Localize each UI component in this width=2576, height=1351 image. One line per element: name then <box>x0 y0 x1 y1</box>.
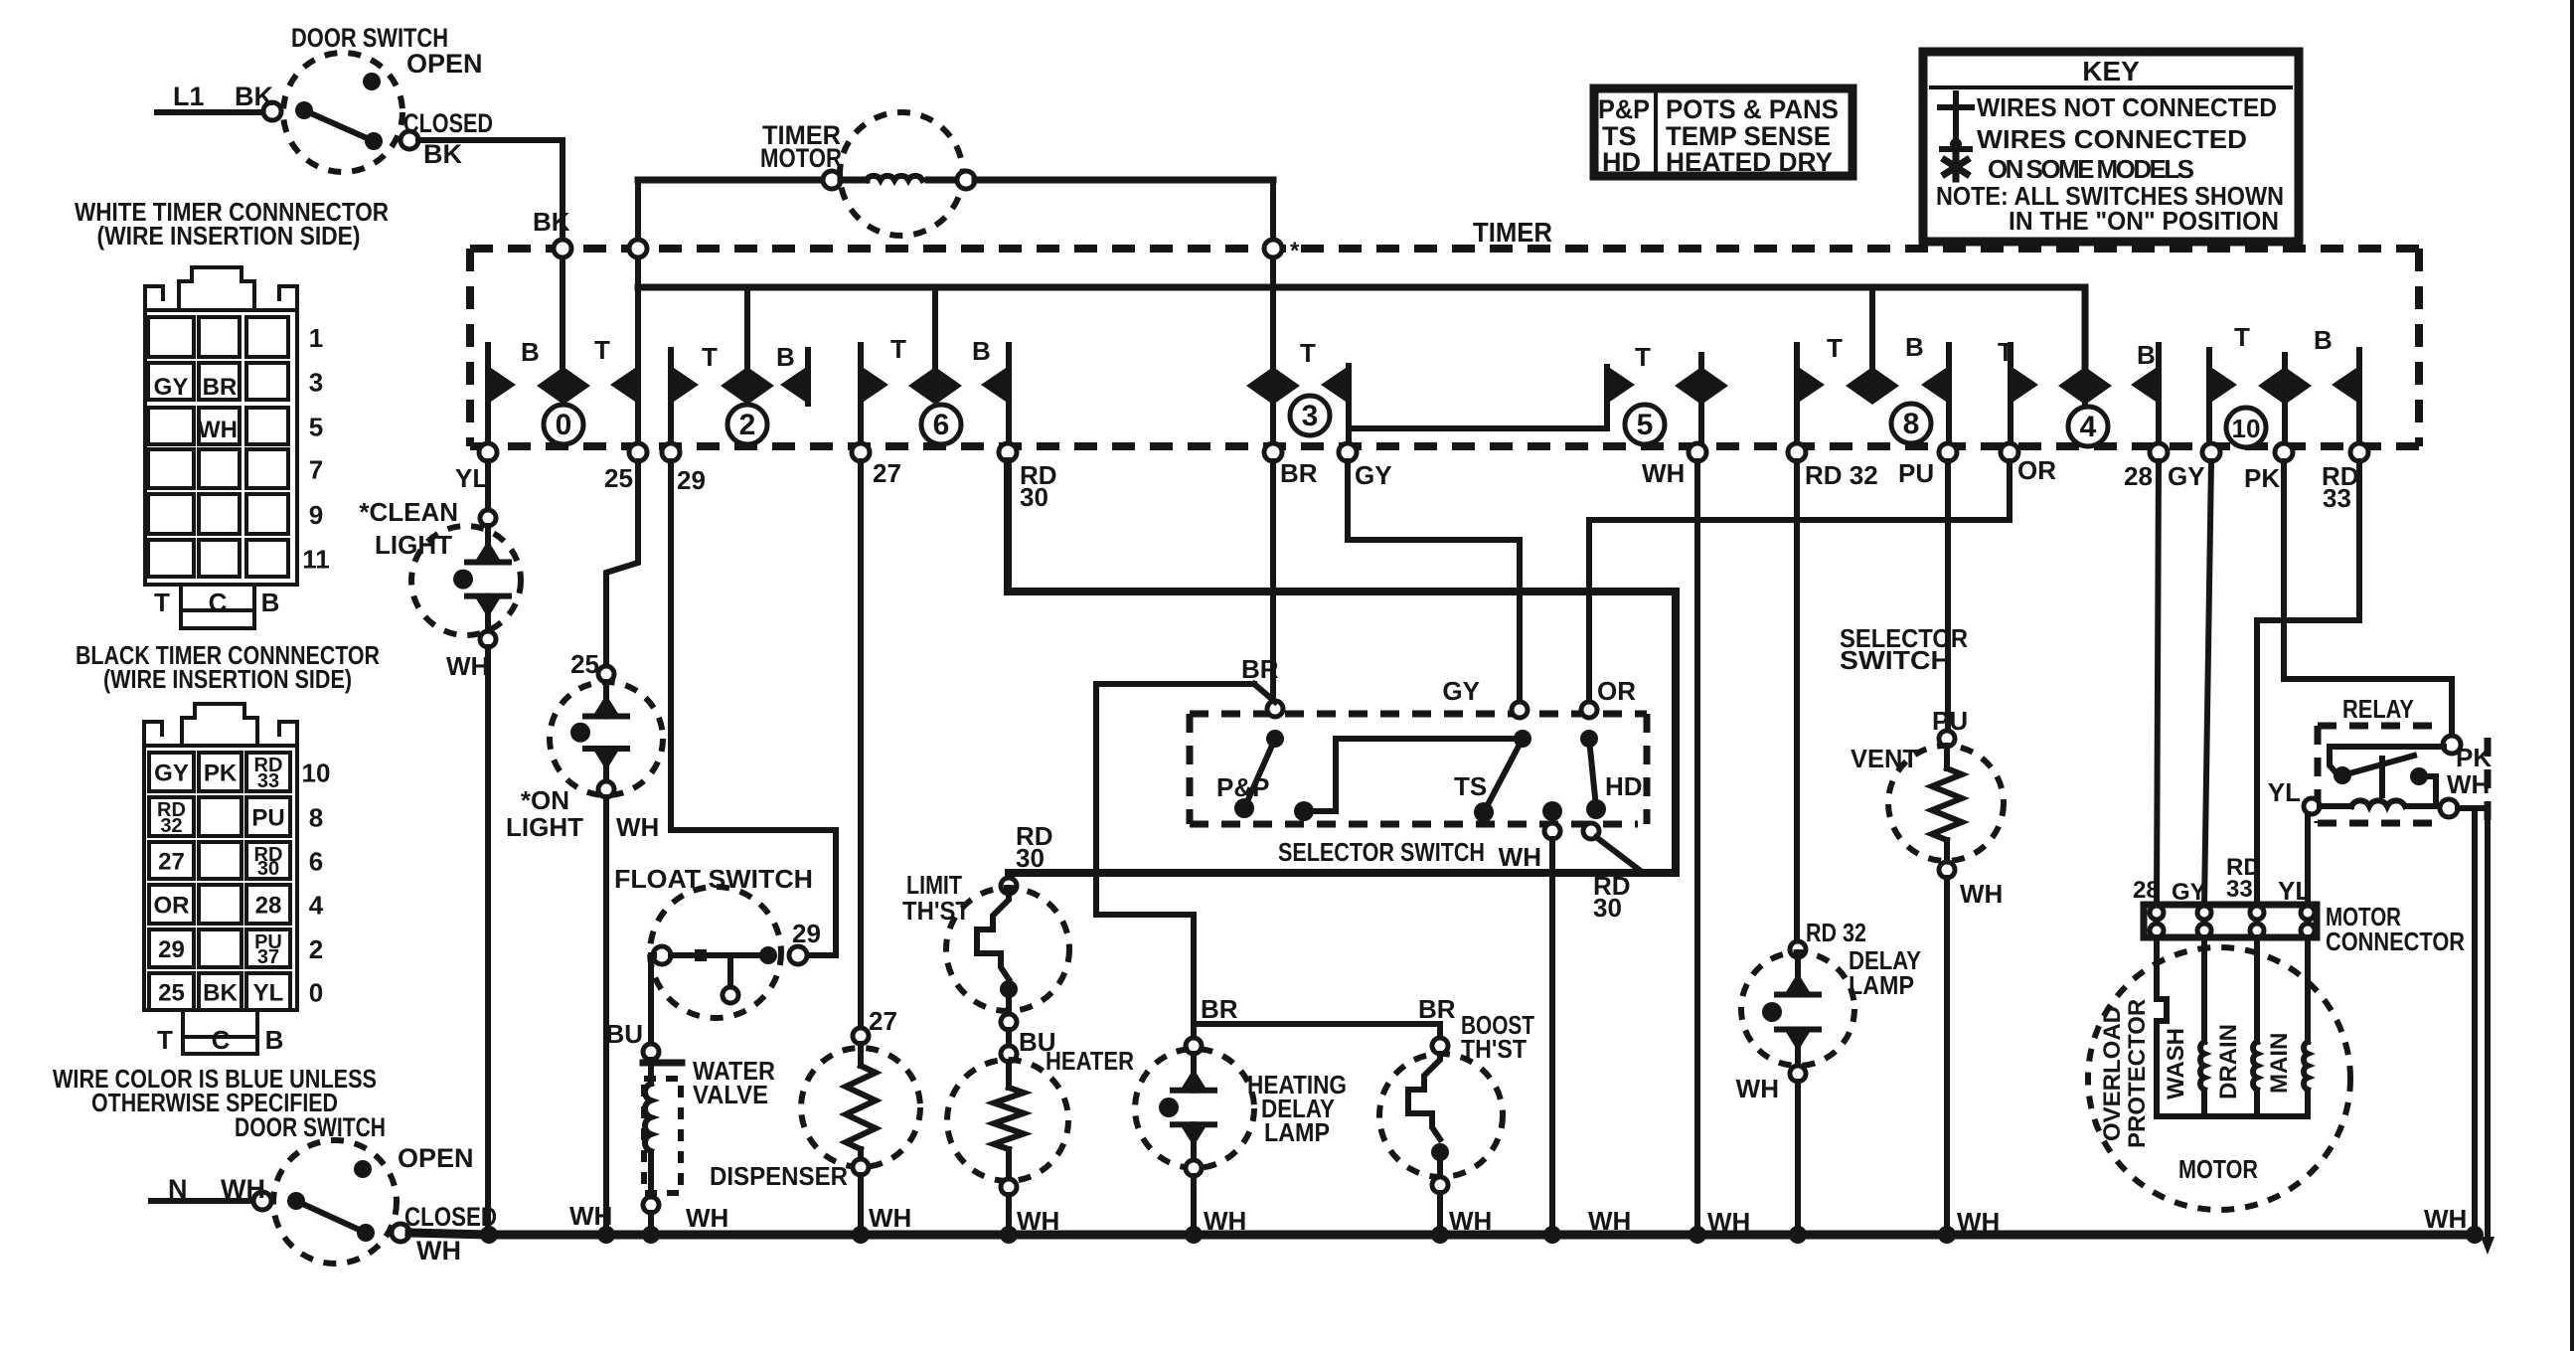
svg-text:B: B <box>776 342 795 372</box>
svg-text:BR: BR <box>1280 458 1318 488</box>
svg-text:BR: BR <box>1241 654 1279 684</box>
svg-text:27: 27 <box>158 849 185 876</box>
svg-text:4: 4 <box>2080 411 2097 443</box>
svg-text:33: 33 <box>2226 876 2253 903</box>
svg-text:RD 32: RD 32 <box>1806 918 1866 947</box>
svg-text:30: 30 <box>1020 482 1048 512</box>
svg-text:WH: WH <box>1642 458 1685 488</box>
svg-text:N: N <box>168 1174 188 1204</box>
svg-text:T: T <box>1635 342 1651 372</box>
svg-text:MAIN: MAIN <box>2266 1033 2293 1094</box>
timer terminals row <box>455 443 2368 513</box>
svg-text:B: B <box>1905 332 1924 362</box>
svg-text:YL: YL <box>2268 777 2301 807</box>
svg-text:T: T <box>594 335 610 365</box>
svg-text:(WIRE INSERTION SIDE): (WIRE INSERTION SIDE) <box>97 221 361 251</box>
timer internal bus <box>638 287 2085 368</box>
svg-text:29: 29 <box>677 465 706 495</box>
svg-text:PK: PK <box>2244 463 2280 493</box>
svg-text:WH: WH <box>569 1201 612 1231</box>
svg-text:DISPENSER: DISPENSER <box>710 1161 848 1191</box>
svg-text:OR: OR <box>2017 455 2056 485</box>
svg-text:DRAIN: DRAIN <box>2215 1024 2242 1099</box>
svg-text:WH: WH <box>1499 842 1541 872</box>
svg-text:T: T <box>1998 337 2013 367</box>
cam switch 0 <box>488 335 638 444</box>
svg-text:25: 25 <box>570 649 599 679</box>
svg-text:6: 6 <box>309 847 323 877</box>
motor <box>2088 937 2350 1210</box>
svg-text:WH: WH <box>416 1236 461 1266</box>
svg-text:T: T <box>1300 338 1316 368</box>
svg-text:B: B <box>972 336 991 366</box>
svg-text:P&P: P&P <box>1216 772 1269 802</box>
relay <box>2268 694 2493 823</box>
motor connector <box>2133 877 2465 956</box>
svg-text:TS: TS <box>1454 771 1487 801</box>
boost thermostat <box>1379 1010 1631 1236</box>
svg-text:32: 32 <box>160 815 182 837</box>
svg-text:CLOSED: CLOSED <box>404 1202 497 1232</box>
svg-text:PU: PU <box>1898 458 1934 488</box>
svg-text:11: 11 <box>302 545 330 575</box>
svg-text:VENT: VENT <box>1851 744 1918 773</box>
selector WH common down to bus <box>1499 801 1562 1235</box>
svg-text:WH: WH <box>869 1203 911 1233</box>
svg-text:LIGHT: LIGHT <box>506 812 583 842</box>
svg-text:BK: BK <box>533 207 570 237</box>
svg-text:33: 33 <box>2323 483 2351 513</box>
svg-text:9: 9 <box>309 500 323 530</box>
svg-text:OPEN: OPEN <box>406 49 483 79</box>
cam switch 3 <box>1246 338 1607 443</box>
on light <box>506 461 663 1235</box>
svg-text:P&P: P&P <box>1598 94 1650 124</box>
svg-text:BK: BK <box>235 82 273 111</box>
svg-text:2: 2 <box>309 934 323 964</box>
svg-text:ON SOME MODELS: ON SOME MODELS <box>1988 154 2194 184</box>
svg-text:HD: HD <box>1602 147 1641 177</box>
svg-text:T: T <box>1827 333 1843 363</box>
svg-text:SWITCH: SWITCH <box>1840 645 1951 675</box>
svg-text:POTS & PANS: POTS & PANS <box>1666 94 1839 124</box>
selector GY / TS switch <box>1348 461 1531 822</box>
svg-text:BU: BU <box>605 1019 643 1049</box>
svg-text:T: T <box>157 1025 173 1055</box>
svg-text:*: * <box>1290 238 1300 264</box>
svg-text:WH: WH <box>446 651 489 681</box>
RD33 wire to motor connector <box>2257 461 2359 905</box>
selector switch dashed box <box>1190 714 1647 867</box>
svg-text:IN THE "ON" POSITION: IN THE "ON" POSITION <box>2009 206 2279 236</box>
svg-text:DOOR SWITCH: DOOR SWITCH <box>235 1112 386 1142</box>
svg-text:GY: GY <box>1442 676 1480 706</box>
svg-text:28: 28 <box>2124 461 2153 491</box>
svg-text:*ON: *ON <box>521 785 569 815</box>
svg-text:SELECTOR SWITCH: SELECTOR SWITCH <box>1278 837 1485 867</box>
svg-text:8: 8 <box>309 803 323 833</box>
svg-text:KEY: KEY <box>2082 56 2140 86</box>
svg-text:C: C <box>212 1025 231 1055</box>
svg-text:2: 2 <box>739 409 756 441</box>
legend P&P/TS/HD <box>1594 88 1852 177</box>
timer motor <box>638 112 1273 236</box>
svg-text:WH: WH <box>2424 1204 2467 1234</box>
svg-text:OPEN: OPEN <box>398 1143 474 1173</box>
svg-text:B: B <box>2137 340 2156 370</box>
svg-text:BK: BK <box>203 980 238 1007</box>
svg-text:*CLEAN: *CLEAN <box>359 497 458 527</box>
water valve <box>605 955 775 1235</box>
door switch (top, L1 side) <box>157 23 563 240</box>
svg-text:T: T <box>890 334 906 364</box>
svg-text:WH: WH <box>221 1174 265 1204</box>
svg-text:6: 6 <box>933 409 950 441</box>
svg-text:PK: PK <box>204 760 238 787</box>
bottom WH bus <box>409 1201 2484 1244</box>
svg-text:GY: GY <box>154 374 189 401</box>
svg-text:WH: WH <box>1960 879 2003 909</box>
svg-text:RD 32: RD 32 <box>1805 460 1878 490</box>
cam switch 5 <box>1607 342 1728 444</box>
scan edge artifact right border <box>2570 0 2574 1351</box>
svg-text:B: B <box>265 1025 284 1055</box>
selector RD30 contact and diagonal <box>1583 823 1642 923</box>
svg-text:C: C <box>209 588 228 617</box>
svg-text:27: 27 <box>873 458 901 488</box>
svg-text:TIMER: TIMER <box>1473 217 1552 248</box>
svg-text:OR: OR <box>1597 676 1636 706</box>
dispenser <box>710 461 920 1235</box>
svg-text:PROTECTOR: PROTECTOR <box>2124 999 2151 1148</box>
svg-text:T: T <box>154 588 170 617</box>
svg-text:YL: YL <box>455 463 488 493</box>
svg-text:T: T <box>702 342 718 372</box>
float switch and 29 wire <box>614 461 836 1018</box>
cam switch 8 <box>1797 287 1949 443</box>
svg-text:RELAY: RELAY <box>2342 694 2414 724</box>
svg-text:WH: WH <box>616 812 659 842</box>
svg-text:3: 3 <box>1302 400 1319 432</box>
svg-text:BR: BR <box>1418 994 1456 1024</box>
svg-text:B: B <box>521 337 540 367</box>
door switch (bottom, N side) <box>151 1112 497 1266</box>
RD30 net (terminal to limit thermostat and selector) <box>1008 461 1676 879</box>
svg-text:WIRES CONNECTED: WIRES CONNECTED <box>1977 124 2247 154</box>
clean light <box>359 461 521 1235</box>
svg-text:33: 33 <box>257 770 279 792</box>
svg-text:29: 29 <box>158 936 185 963</box>
svg-text:GY: GY <box>1355 460 1392 490</box>
svg-text:VALVE: VALVE <box>693 1080 768 1109</box>
svg-text:WH: WH <box>686 1203 728 1233</box>
timer dashed box <box>470 217 2419 446</box>
svg-text:CLOSED: CLOSED <box>403 108 493 138</box>
PK wire to relay <box>2284 461 2452 737</box>
svg-text:L1: L1 <box>173 82 205 111</box>
svg-text:B: B <box>261 588 280 617</box>
limit thermostat <box>902 870 1069 1030</box>
RD32 wire and delay lamp <box>1736 461 1921 1235</box>
relay WH wires down to bus <box>2424 808 2495 1255</box>
svg-text:OR: OR <box>154 893 190 920</box>
svg-text:37: 37 <box>257 946 279 968</box>
svg-text:PK: PK <box>2456 743 2492 772</box>
svg-text:HEATER: HEATER <box>1046 1046 1134 1076</box>
YL wire relay to motor connector <box>2305 814 2311 905</box>
svg-text:LIGHT: LIGHT <box>375 530 452 560</box>
svg-text:WIRES NOT CONNECTED: WIRES NOT CONNECTED <box>1977 92 2277 122</box>
svg-text:BR: BR <box>1201 994 1238 1024</box>
svg-text:0: 0 <box>556 409 572 441</box>
svg-text:FLOAT SWITCH: FLOAT SWITCH <box>614 864 813 894</box>
wire timer motor feed down (x=642) <box>635 180 641 443</box>
svg-text:5: 5 <box>309 413 323 442</box>
GY wire to motor connector <box>2204 461 2211 905</box>
svg-text:25: 25 <box>604 463 633 493</box>
heating delay lamp <box>1135 1038 1347 1236</box>
svg-text:LAMP: LAMP <box>1264 1117 1330 1147</box>
svg-text:29: 29 <box>792 919 821 948</box>
svg-text:GY: GY <box>2168 461 2205 491</box>
svg-text:B: B <box>2314 325 2333 355</box>
svg-text:7: 7 <box>309 455 323 485</box>
svg-text:30: 30 <box>1016 843 1045 873</box>
svg-text:CONNECTOR: CONNECTOR <box>2326 927 2465 956</box>
svg-text:TH'ST: TH'ST <box>1461 1034 1527 1064</box>
svg-text:28: 28 <box>255 893 282 920</box>
wire BK from door switch down to timer <box>560 249 565 368</box>
selector OR / HD switch <box>1580 461 2010 819</box>
svg-text:BK: BK <box>423 139 462 169</box>
svg-text:10: 10 <box>2232 414 2261 443</box>
BR net to heating delay lamp and boost thermostat <box>1096 684 1456 1038</box>
svg-text:LAMP: LAMP <box>1849 970 1914 1000</box>
svg-text:WH: WH <box>1736 1074 1779 1103</box>
vent <box>1851 461 2004 1237</box>
svg-text:10: 10 <box>302 759 331 788</box>
white timer connector <box>75 197 389 628</box>
WH wire from timer to bus <box>1694 461 1700 1235</box>
svg-text:GY: GY <box>154 760 189 787</box>
svg-text:MOTOR: MOTOR <box>760 143 842 173</box>
svg-text:5: 5 <box>1637 409 1654 441</box>
svg-text:30: 30 <box>257 858 279 880</box>
svg-text:(WIRE INSERTION SIDE): (WIRE INSERTION SIDE) <box>103 664 352 694</box>
svg-text:PU: PU <box>251 805 284 832</box>
heater <box>947 1027 1134 1236</box>
wire timer motor to cam 3 (x=1281) <box>1270 180 1276 443</box>
cam switch 6 <box>861 287 1009 444</box>
svg-text:27: 27 <box>869 1006 897 1036</box>
svg-text:HD: HD <box>1605 771 1643 801</box>
selector second contact wire <box>1294 739 1523 821</box>
28 wire to motor connector <box>2157 461 2159 905</box>
svg-text:T: T <box>2234 322 2250 352</box>
svg-text:MOTOR: MOTOR <box>2178 1154 2258 1184</box>
svg-text:BR: BR <box>203 374 238 401</box>
svg-text:WASH: WASH <box>2163 1028 2189 1099</box>
svg-text:8: 8 <box>1903 408 1920 440</box>
svg-text:4: 4 <box>309 891 324 921</box>
svg-text:WH: WH <box>2447 769 2490 799</box>
svg-text:25: 25 <box>158 980 185 1007</box>
selector BR / P&P switch <box>1216 461 1284 818</box>
key box <box>1923 52 2299 242</box>
svg-text:0: 0 <box>309 978 323 1008</box>
svg-text:HEATED DRY: HEATED DRY <box>1666 147 1833 177</box>
svg-text:1: 1 <box>309 323 323 353</box>
black timer connector <box>76 640 380 1055</box>
svg-text:OVERLOAD: OVERLOAD <box>2099 1006 2126 1141</box>
svg-text:3: 3 <box>309 368 323 398</box>
svg-text:YL: YL <box>253 980 284 1007</box>
cam switch 2 <box>671 287 808 444</box>
cam switch 10 <box>2209 322 2359 447</box>
cam switch 4 <box>1998 337 2159 446</box>
svg-text:WH: WH <box>198 417 238 443</box>
svg-text:TH'ST: TH'ST <box>902 896 970 926</box>
svg-text:30: 30 <box>1593 893 1622 923</box>
svg-text:PU: PU <box>1932 706 1968 736</box>
svg-text:GY: GY <box>2172 879 2206 906</box>
svg-text:28: 28 <box>2133 877 2160 904</box>
